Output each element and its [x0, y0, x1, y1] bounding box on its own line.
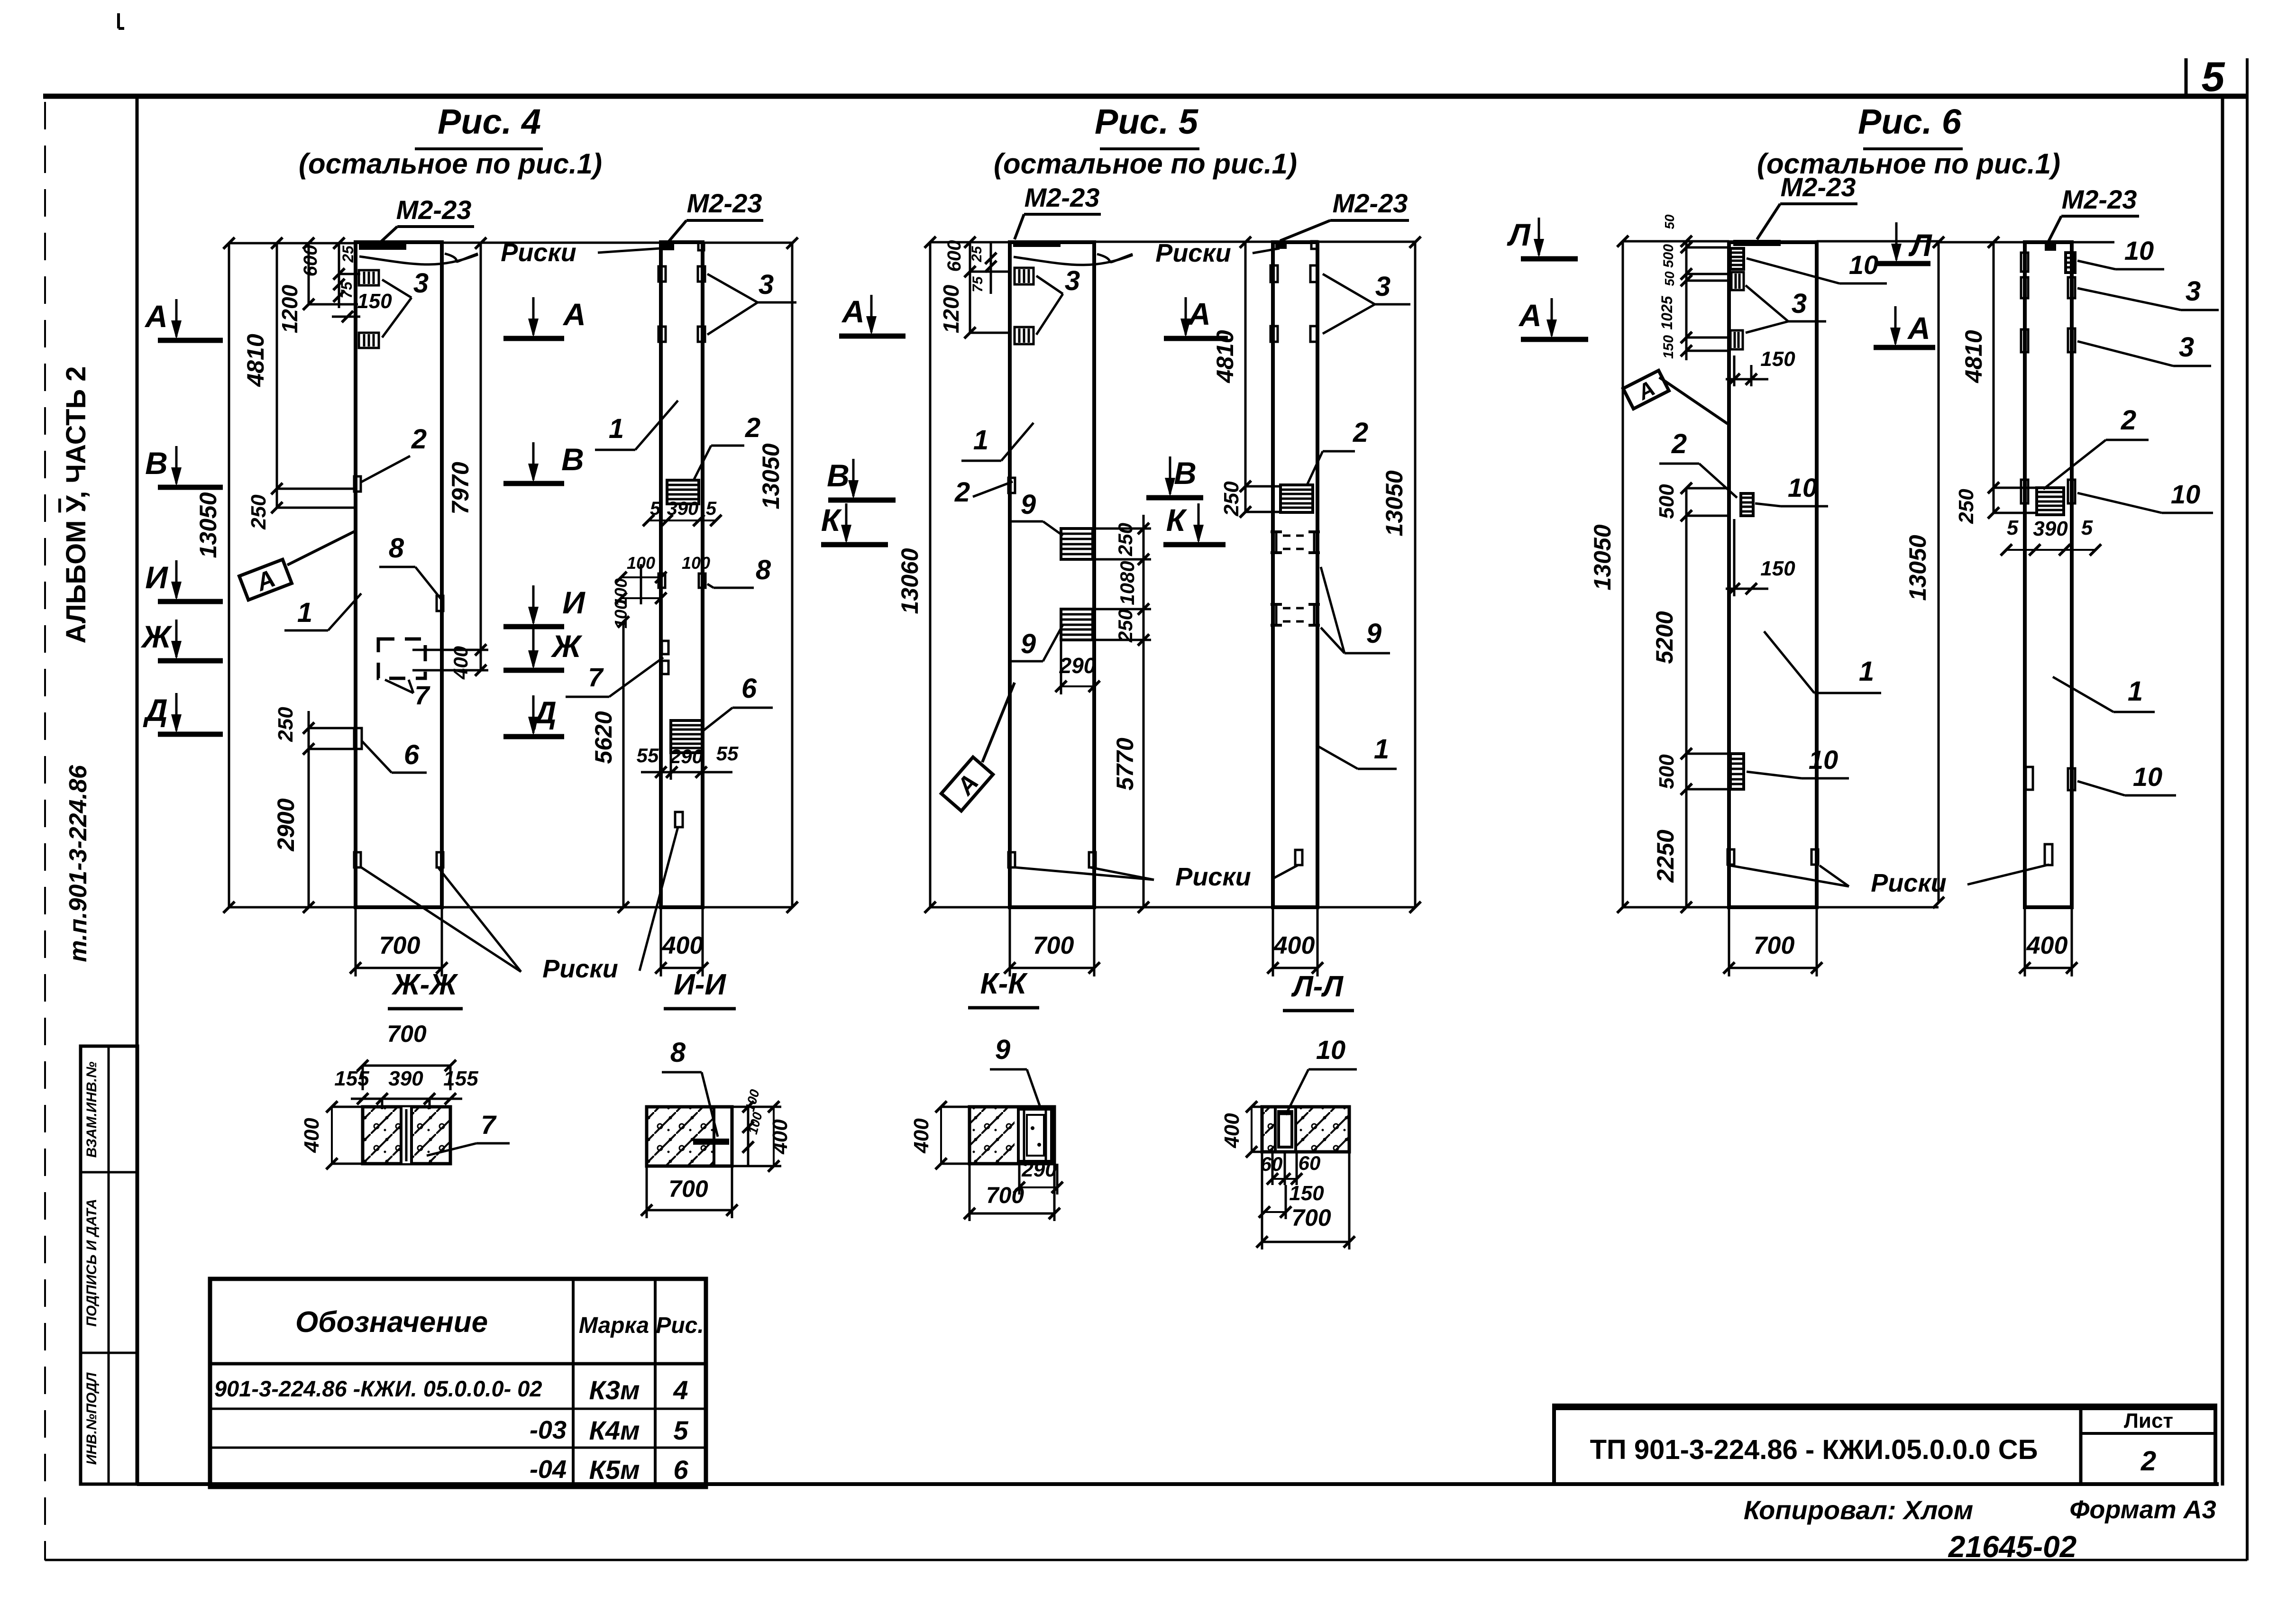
svg-text:К-К: К-К	[980, 967, 1028, 1000]
svg-text:Д: Д	[143, 693, 168, 728]
svg-text:-03: -03	[530, 1416, 567, 1444]
svg-text:400: 400	[449, 646, 472, 680]
svg-text:390: 390	[2033, 517, 2068, 540]
svg-text:АЛЬБОМ У, ЧАСТЬ 2: АЛЬБОМ У, ЧАСТЬ 2	[61, 366, 91, 643]
svg-text:5: 5	[650, 498, 661, 519]
svg-text:А: А	[562, 297, 586, 332]
svg-text:2900: 2900	[273, 798, 299, 851]
svg-text:290: 290	[669, 745, 703, 767]
svg-text:4810: 4810	[1960, 330, 1987, 383]
svg-text:Ж-Ж: Ж-Ж	[391, 968, 458, 1001]
svg-text:5: 5	[2081, 516, 2093, 539]
svg-text:М2-23: М2-23	[1333, 188, 1408, 218]
svg-text:13050: 13050	[1381, 470, 1408, 536]
svg-text:25: 25	[339, 245, 357, 263]
svg-text:400: 400	[768, 1119, 792, 1155]
svg-text:5200: 5200	[1651, 611, 1678, 664]
svg-text:2: 2	[1353, 417, 1368, 448]
svg-text:3: 3	[2179, 332, 2194, 363]
svg-text:10: 10	[2133, 762, 2162, 792]
svg-text:150: 150	[357, 290, 392, 313]
svg-text:К5м: К5м	[589, 1455, 640, 1485]
svg-text:150: 150	[1289, 1182, 1324, 1205]
svg-text:1: 1	[973, 425, 988, 456]
svg-text:6: 6	[404, 739, 420, 770]
svg-text:500: 500	[1655, 754, 1678, 789]
svg-text:9: 9	[1021, 629, 1036, 659]
svg-text:400: 400	[910, 1118, 933, 1154]
svg-text:700: 700	[387, 1021, 427, 1047]
svg-text:В: В	[1174, 456, 1197, 491]
svg-text:8: 8	[670, 1037, 686, 1068]
svg-text:10: 10	[1809, 745, 1838, 775]
svg-text:М2-23: М2-23	[2062, 184, 2137, 214]
svg-text:1080: 1080	[1116, 561, 1138, 605]
svg-text:3: 3	[1065, 265, 1080, 296]
svg-text:700: 700	[668, 1176, 708, 1202]
svg-text:И: И	[562, 585, 585, 620]
svg-text:(остальное по рис.1): (остальное по рис.1)	[299, 148, 602, 180]
svg-text:ВЗАМ.ИНВ.№: ВЗАМ.ИНВ.№	[84, 1062, 100, 1158]
svg-text:13050: 13050	[1904, 535, 1931, 601]
svg-text:3: 3	[1792, 288, 1807, 319]
svg-text:700: 700	[1291, 1204, 1331, 1231]
svg-text:10: 10	[1849, 250, 1878, 280]
svg-text:8: 8	[389, 533, 404, 564]
svg-text:500: 500	[1655, 484, 1678, 519]
svg-text:55: 55	[637, 744, 659, 766]
svg-text:Ж: Ж	[550, 629, 583, 664]
svg-text:390: 390	[388, 1067, 423, 1090]
svg-text:В: В	[827, 458, 850, 493]
svg-text:55: 55	[716, 742, 739, 765]
svg-text:13060: 13060	[896, 548, 923, 614]
svg-text:150: 150	[1760, 557, 1795, 580]
svg-text:7: 7	[414, 680, 430, 710]
svg-text:250: 250	[1114, 609, 1136, 643]
svg-text:700: 700	[1033, 932, 1074, 959]
svg-text:400: 400	[1273, 932, 1315, 959]
svg-text:600: 600	[944, 240, 965, 272]
svg-text:1: 1	[297, 597, 312, 628]
svg-text:1200: 1200	[939, 284, 963, 333]
svg-text:7: 7	[481, 1110, 497, 1140]
svg-text:А: А	[1907, 310, 1930, 346]
svg-text:2: 2	[1671, 429, 1687, 459]
svg-text:13050: 13050	[195, 492, 221, 558]
svg-text:1: 1	[2128, 676, 2143, 707]
svg-text:500: 500	[1661, 244, 1676, 268]
svg-text:9: 9	[1366, 618, 1381, 649]
svg-text:2: 2	[411, 424, 427, 455]
svg-text:5770: 5770	[1112, 738, 1138, 790]
svg-text:А: А	[841, 294, 865, 329]
svg-text:150: 150	[1760, 347, 1795, 371]
svg-text:Риски: Риски	[1155, 239, 1231, 267]
svg-text:Д: Д	[531, 695, 557, 730]
svg-text:В: В	[561, 442, 584, 477]
svg-text:250: 250	[1220, 481, 1243, 517]
svg-text:В: В	[145, 446, 168, 481]
svg-text:4810: 4810	[242, 334, 269, 387]
svg-text:10: 10	[1788, 473, 1817, 502]
svg-text:Л: Л	[1908, 228, 1932, 263]
svg-text:(остальное по рис.1): (остальное по рис.1)	[994, 148, 1297, 180]
svg-text:13050: 13050	[1589, 524, 1616, 590]
svg-text:Риски: Риски	[501, 238, 576, 267]
svg-text:Ж: Ж	[140, 619, 173, 654]
svg-text:100: 100	[682, 553, 710, 573]
svg-text:К: К	[821, 502, 842, 538]
svg-text:901-3-224.86 -КЖИ. 05.0.0.0- 0: 901-3-224.86 -КЖИ. 05.0.0.0- 02	[214, 1376, 542, 1401]
svg-text:7970: 7970	[447, 462, 474, 514]
svg-text:2: 2	[745, 412, 760, 443]
svg-text:К4м: К4м	[589, 1415, 640, 1445]
svg-text:ПОДПИСЬ И ДАТА: ПОДПИСЬ И ДАТА	[84, 1199, 100, 1327]
svg-text:600: 600	[300, 245, 321, 277]
svg-text:А: А	[144, 299, 168, 334]
svg-text:700: 700	[379, 932, 421, 959]
svg-text:13050: 13050	[758, 443, 784, 509]
svg-text:И: И	[145, 560, 168, 595]
svg-text:3: 3	[1375, 271, 1390, 302]
svg-text:400: 400	[2026, 932, 2068, 959]
svg-text:Обозначение: Обозначение	[295, 1306, 488, 1339]
svg-text:5: 5	[2007, 516, 2019, 539]
svg-text:Л: Л	[1507, 217, 1531, 252]
svg-text:Риски: Риски	[1871, 869, 1946, 897]
svg-text:6: 6	[741, 673, 757, 704]
svg-text:250: 250	[274, 707, 297, 742]
svg-text:И-И: И-И	[674, 968, 726, 1001]
svg-text:390: 390	[667, 498, 699, 519]
svg-text:Рис. 5: Рис. 5	[1095, 102, 1199, 141]
svg-text:3: 3	[2186, 276, 2201, 307]
svg-text:9: 9	[995, 1034, 1010, 1065]
svg-text:5: 5	[706, 498, 717, 519]
svg-text:150: 150	[1661, 335, 1676, 359]
svg-text:50: 50	[1662, 214, 1677, 229]
svg-text:2: 2	[2140, 1446, 2156, 1477]
svg-text:А: А	[1187, 296, 1211, 331]
svg-text:10: 10	[2124, 236, 2154, 265]
svg-text:М2-23: М2-23	[1025, 182, 1100, 212]
svg-text:3: 3	[413, 268, 429, 299]
svg-text:1: 1	[1374, 734, 1389, 765]
svg-text:7: 7	[588, 662, 604, 692]
svg-text:Рис. 4: Рис. 4	[438, 102, 541, 141]
svg-text:25: 25	[969, 246, 985, 263]
svg-text:10: 10	[1316, 1035, 1345, 1065]
svg-text:Марка: Марка	[579, 1313, 649, 1338]
svg-text:250: 250	[247, 494, 270, 530]
svg-text:9: 9	[1021, 489, 1036, 520]
svg-text:1: 1	[609, 413, 624, 444]
svg-text:5: 5	[673, 1415, 688, 1445]
svg-text:6: 6	[673, 1455, 688, 1485]
svg-text:100: 100	[611, 600, 631, 629]
svg-text:1200: 1200	[277, 284, 302, 333]
svg-text:Риски: Риски	[1175, 863, 1251, 891]
svg-text:2: 2	[954, 477, 970, 508]
svg-text:60: 60	[1299, 1152, 1321, 1174]
svg-text:Л-Л: Л-Л	[1291, 970, 1344, 1003]
svg-text:К3м: К3м	[589, 1375, 640, 1405]
svg-text:3: 3	[759, 269, 774, 300]
svg-text:700: 700	[1754, 932, 1795, 959]
svg-text:75: 75	[970, 276, 986, 292]
svg-text:1: 1	[1859, 656, 1874, 687]
svg-text:-04: -04	[530, 1455, 567, 1484]
svg-text:10: 10	[2171, 479, 2200, 509]
svg-text:8: 8	[756, 555, 771, 585]
svg-text:5620: 5620	[590, 711, 617, 764]
svg-text:2: 2	[2121, 405, 2136, 436]
svg-text:290: 290	[1021, 1158, 1057, 1181]
svg-text:Рис. 6: Рис. 6	[1858, 102, 1962, 141]
svg-text:75: 75	[338, 281, 355, 299]
svg-text:21645-02: 21645-02	[1948, 1530, 2076, 1564]
svg-text:К: К	[1166, 502, 1188, 538]
svg-text:ИНВ.№ПОДЛ: ИНВ.№ПОДЛ	[84, 1372, 100, 1465]
svg-text:М2-23: М2-23	[687, 188, 762, 218]
svg-text:5: 5	[2202, 53, 2225, 100]
svg-text:Формат А3: Формат А3	[2069, 1495, 2216, 1524]
svg-text:Риски: Риски	[542, 955, 618, 983]
svg-text:155: 155	[443, 1067, 478, 1090]
svg-text:М2-23: М2-23	[396, 195, 472, 225]
svg-text:1025: 1025	[1658, 295, 1675, 329]
svg-text:А: А	[1518, 298, 1542, 333]
svg-text:ТП 901-3-224.86 - КЖИ.05.0.0.: ТП 901-3-224.86 - КЖИ.05.0.0.0 СБ	[1590, 1434, 2038, 1465]
svg-text:250: 250	[1955, 489, 1978, 524]
svg-text:155: 155	[334, 1067, 369, 1090]
svg-text:4: 4	[673, 1375, 688, 1405]
svg-text:Рис.: Рис.	[656, 1313, 704, 1338]
svg-text:400: 400	[662, 932, 704, 959]
svg-text:М2-23: М2-23	[1781, 172, 1856, 202]
svg-text:400: 400	[300, 1118, 323, 1153]
svg-text:Лист: Лист	[2124, 1409, 2173, 1432]
svg-text:2250: 2250	[1652, 830, 1679, 883]
svg-text:290: 290	[1059, 653, 1096, 678]
svg-text:Копировал: Хлом: Копировал: Хлом	[1744, 1495, 1973, 1525]
svg-text:400: 400	[1220, 1113, 1244, 1149]
svg-text:т.п.901-3-224.86: т.п.901-3-224.86	[64, 765, 92, 962]
svg-text:50: 50	[1662, 271, 1677, 286]
